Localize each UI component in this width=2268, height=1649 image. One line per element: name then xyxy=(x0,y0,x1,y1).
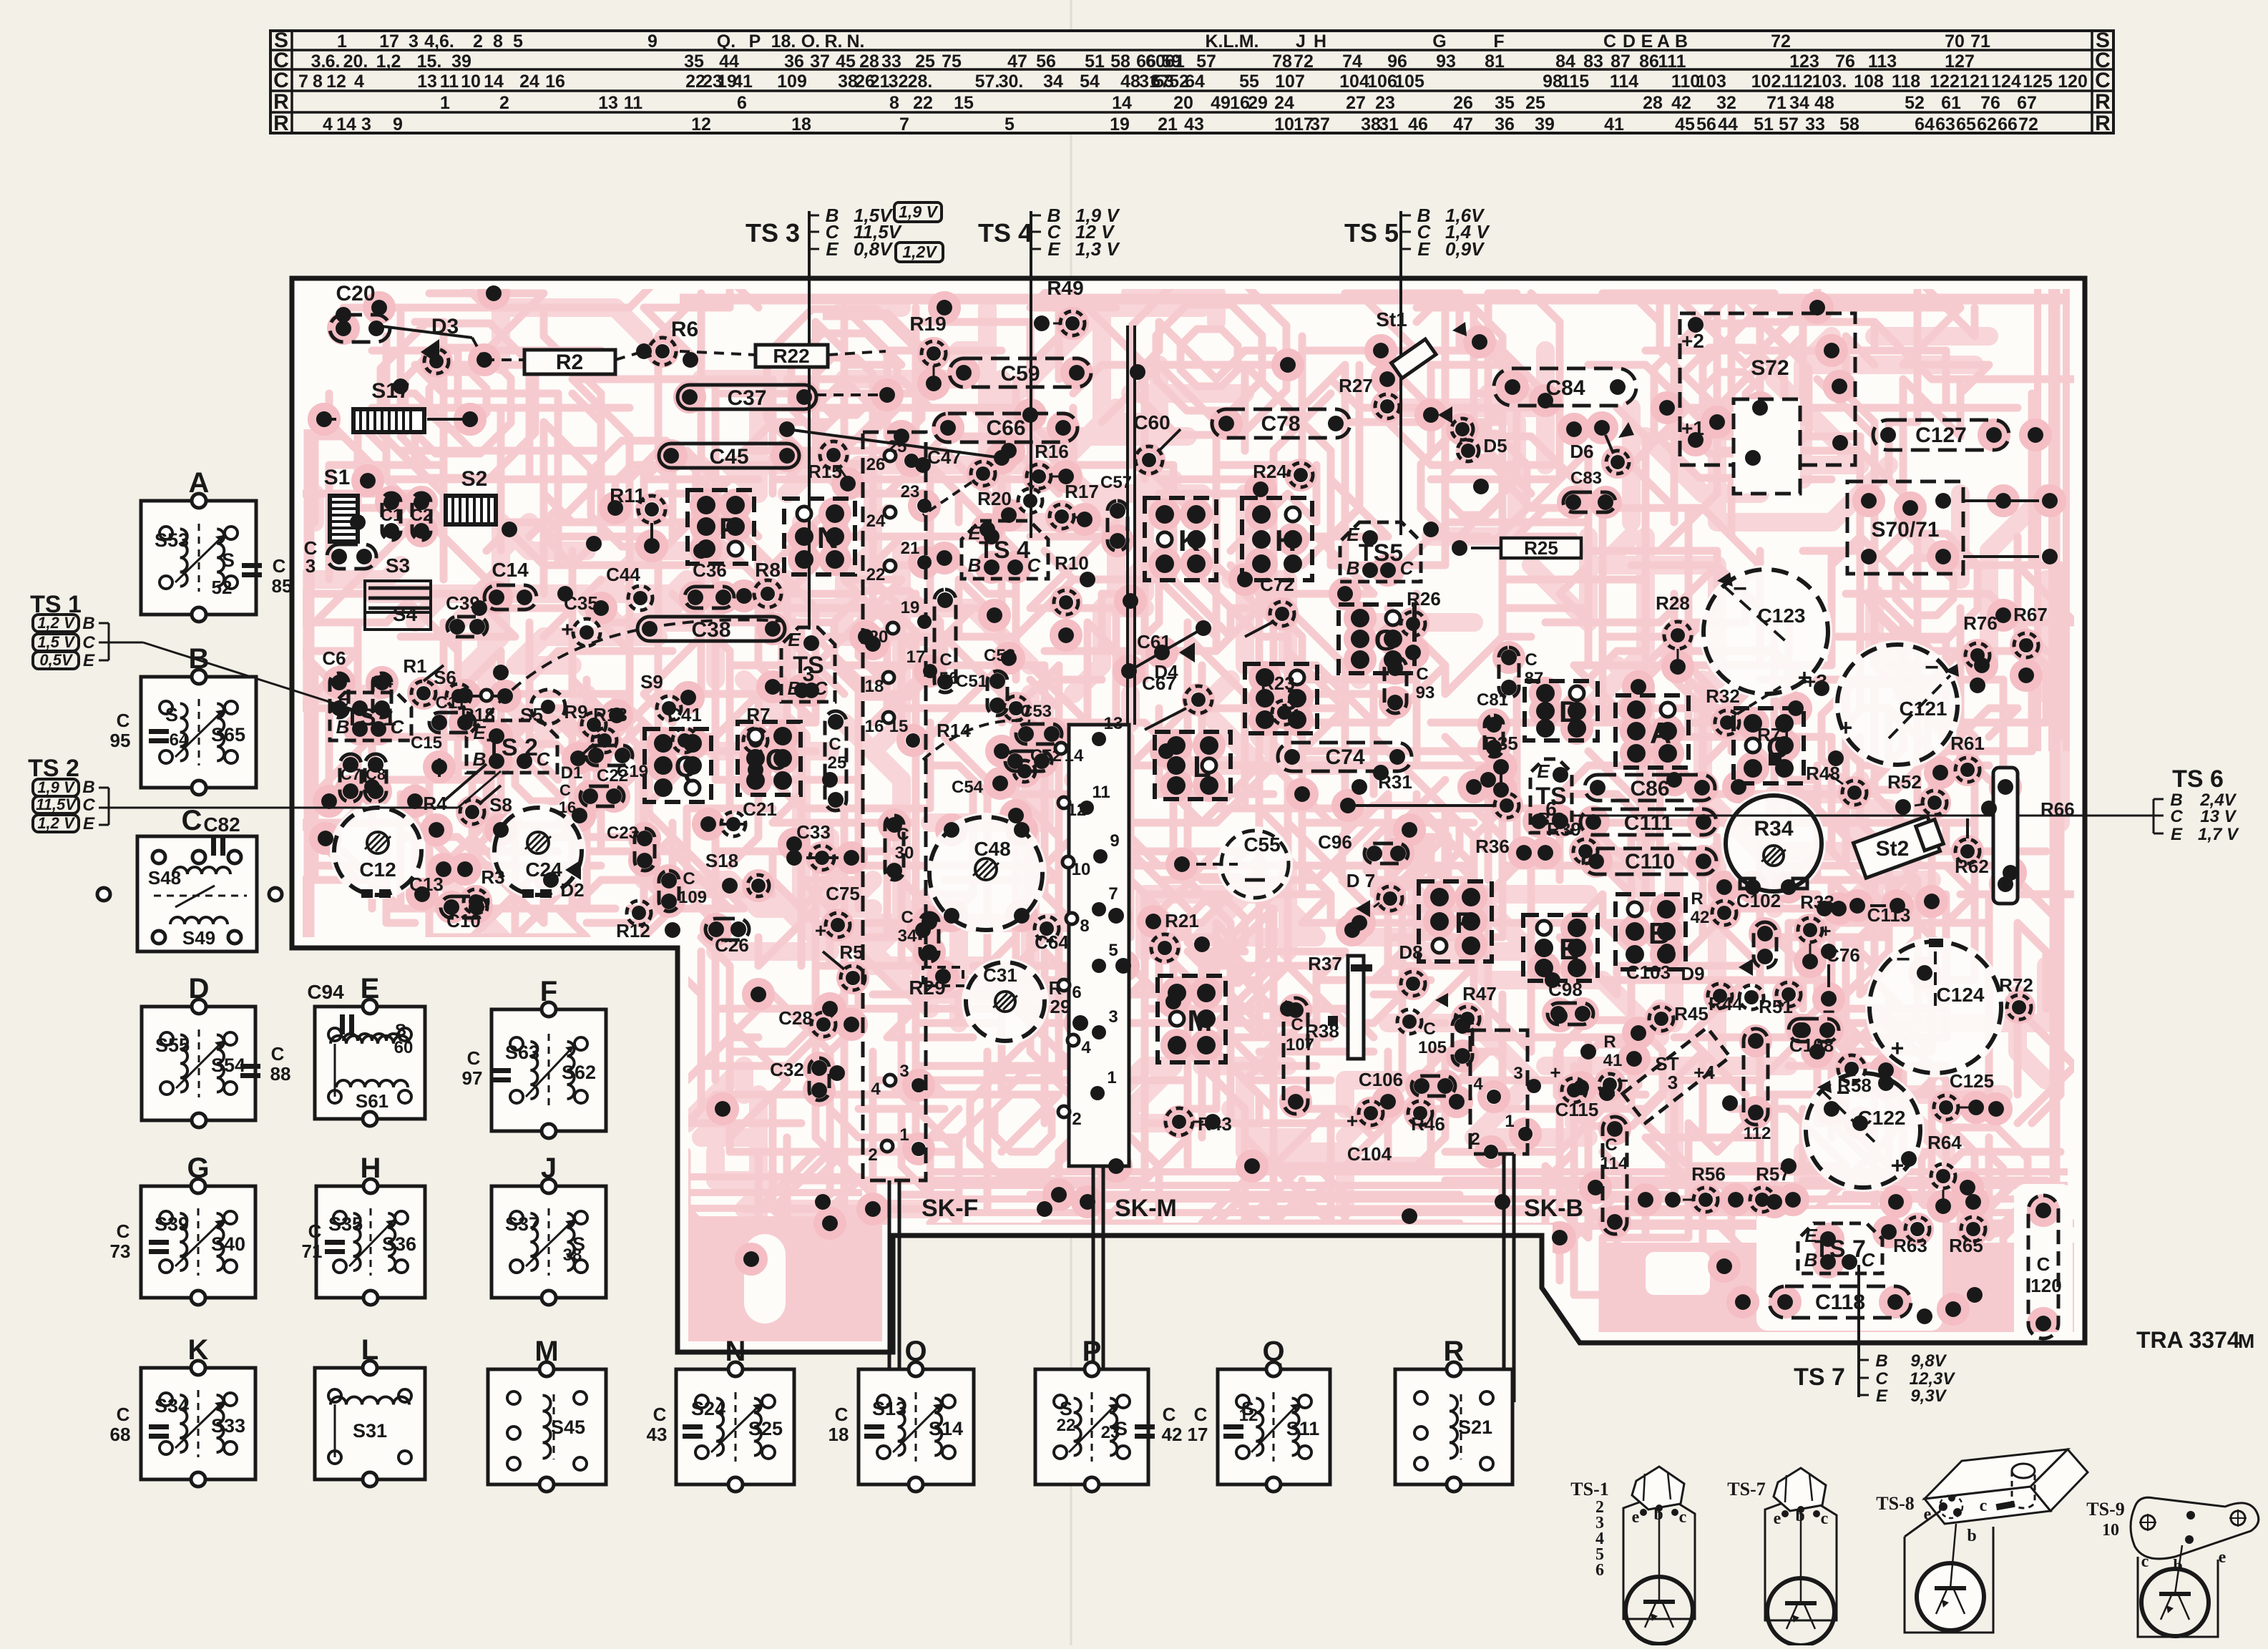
svg-text:SK-B: SK-B xyxy=(1524,1195,1583,1222)
capacitor C4 xyxy=(371,672,394,718)
transformer E xyxy=(307,973,425,1126)
svg-text:D 7: D 7 xyxy=(1346,870,1375,891)
resistor R67 xyxy=(2013,604,2048,683)
svg-text:45: 45 xyxy=(1675,114,1695,134)
svg-text:S40: S40 xyxy=(211,1233,245,1255)
capacitor C64 xyxy=(1035,916,1069,953)
resistor R35 xyxy=(1484,733,1518,798)
plug SK-B pads xyxy=(1470,1064,1541,1159)
svg-text:78: 78 xyxy=(1272,52,1292,72)
capacitor C108 xyxy=(1789,1019,1839,1056)
svg-text:C7: C7 xyxy=(341,765,361,783)
svg-text:3: 3 xyxy=(803,662,815,686)
svg-text:R6: R6 xyxy=(671,318,698,341)
svg-text:70: 70 xyxy=(1945,31,1965,52)
svg-text:127: 127 xyxy=(1945,52,1975,72)
svg-text:E: E xyxy=(473,722,486,743)
svg-text:C78: C78 xyxy=(1261,412,1300,436)
resistor R3 xyxy=(464,866,505,914)
capacitor C8 xyxy=(365,754,386,802)
svg-text:E: E xyxy=(1047,238,1060,260)
capacitor C111 xyxy=(1580,809,1716,835)
capacitor C56 xyxy=(934,589,958,693)
svg-text:+4: +4 xyxy=(1693,1062,1715,1083)
svg-text:R13: R13 xyxy=(593,704,627,725)
svg-text:0,9V: 0,9V xyxy=(1445,238,1485,260)
svg-text:St1: St1 xyxy=(1376,308,1407,331)
test point callouts xyxy=(28,202,2239,1406)
capacitor C35 xyxy=(561,592,600,646)
svg-text:S49: S49 xyxy=(182,927,215,949)
svg-text:SK-F: SK-F xyxy=(922,1195,978,1222)
svg-text:C: C xyxy=(271,1043,285,1065)
resistor R76 xyxy=(1963,612,1998,693)
svg-text:R52: R52 xyxy=(1887,771,1922,793)
svg-text:S24: S24 xyxy=(691,1398,725,1419)
svg-text:74: 74 xyxy=(1342,52,1362,72)
resistor R41 xyxy=(1599,1032,1642,1095)
svg-text:102.: 102. xyxy=(1751,72,1786,92)
svg-text:123: 123 xyxy=(1789,52,1819,72)
svg-text:R1: R1 xyxy=(403,655,426,677)
svg-text:105: 105 xyxy=(1418,1038,1447,1057)
svg-text:6: 6 xyxy=(1595,1561,1604,1580)
svg-text:41: 41 xyxy=(733,72,753,92)
capacitor C34 xyxy=(898,908,939,961)
svg-text:+3: +3 xyxy=(1804,670,1827,693)
plug SKM strip xyxy=(1069,725,1129,1166)
svg-text:36: 36 xyxy=(784,52,804,72)
svg-text:R76: R76 xyxy=(1963,612,1998,634)
svg-text:2: 2 xyxy=(1072,1110,1081,1129)
capacitor C54 xyxy=(952,760,1035,797)
svg-text:56: 56 xyxy=(1696,114,1716,134)
svg-text:11: 11 xyxy=(624,93,643,113)
svg-text:D5: D5 xyxy=(1483,435,1507,456)
transistor box E2 xyxy=(1523,915,1598,981)
capacitor C115 xyxy=(1550,1062,1628,1120)
plug St1 xyxy=(1376,308,1487,378)
svg-text:TS-1: TS-1 xyxy=(1570,1479,1608,1499)
svg-text:C48: C48 xyxy=(974,838,1010,860)
svg-text:TS 7: TS 7 xyxy=(1794,1364,1845,1391)
svg-text:5: 5 xyxy=(1108,941,1118,960)
svg-text:C: C xyxy=(1862,1249,1876,1271)
svg-text:9: 9 xyxy=(1110,831,1119,851)
diode D8 xyxy=(1397,941,1448,1034)
plug St2 xyxy=(1853,814,1945,878)
svg-text:1,9 V: 1,9 V xyxy=(899,202,938,221)
svg-text:C86: C86 xyxy=(1630,777,1669,801)
diode D3 xyxy=(421,315,459,373)
svg-text:12: 12 xyxy=(326,72,346,92)
svg-text:−: − xyxy=(1896,946,1910,973)
svg-text:S21: S21 xyxy=(1458,1416,1492,1438)
svg-text:TS-9: TS-9 xyxy=(2086,1499,2124,1520)
pinout TS-9/10 xyxy=(2086,1497,2259,1637)
svg-text:18: 18 xyxy=(865,677,884,696)
svg-text:2: 2 xyxy=(499,93,509,113)
svg-text:S25: S25 xyxy=(748,1418,783,1439)
capacitor C96 xyxy=(1318,831,1408,863)
svg-text:24: 24 xyxy=(866,512,886,531)
svg-text:C: C xyxy=(1400,557,1414,579)
svg-text:28: 28 xyxy=(859,52,879,72)
svg-text:C125: C125 xyxy=(1950,1070,1994,1092)
plug SK-M upper slot xyxy=(1128,326,1135,725)
svg-text:D2: D2 xyxy=(560,879,584,901)
svg-text:R37: R37 xyxy=(1308,953,1342,974)
svg-text:R2: R2 xyxy=(556,351,583,374)
svg-text:R56: R56 xyxy=(1691,1163,1726,1185)
svg-text:4: 4 xyxy=(323,114,333,134)
wire dashed curve xyxy=(487,620,781,717)
resistor R18 xyxy=(446,684,513,725)
capacitor C102 xyxy=(1736,890,1781,968)
svg-text:R: R xyxy=(1691,889,1703,909)
transistor TS7 xyxy=(1798,1223,1882,1273)
svg-text:23: 23 xyxy=(1101,1423,1120,1442)
svg-text:S37: S37 xyxy=(505,1213,539,1235)
svg-text:4: 4 xyxy=(354,72,364,92)
svg-text:C6: C6 xyxy=(322,647,346,669)
svg-text:c: c xyxy=(1679,1508,1687,1527)
resistor R16 xyxy=(1027,441,1074,489)
svg-text:R24: R24 xyxy=(1253,461,1287,482)
capacitor C114 xyxy=(1600,1117,1628,1234)
svg-text:16: 16 xyxy=(1230,93,1250,113)
svg-text:R49: R49 xyxy=(1047,277,1083,299)
diode D4 xyxy=(1154,642,1195,682)
svg-text:R: R xyxy=(2095,90,2111,114)
svg-text:3: 3 xyxy=(409,31,419,52)
svg-text:71: 71 xyxy=(1970,31,1990,52)
capacitor C41 xyxy=(668,704,702,753)
svg-text:16: 16 xyxy=(545,72,565,92)
svg-text:76: 76 xyxy=(1980,93,2000,113)
svg-text:71: 71 xyxy=(1766,93,1786,113)
svg-text:C37: C37 xyxy=(727,386,766,410)
svg-text:C82: C82 xyxy=(203,813,240,836)
parts list table xyxy=(270,29,2113,135)
svg-text:C: C xyxy=(1423,1019,1435,1039)
svg-text:K: K xyxy=(1178,524,1200,557)
svg-text:C83: C83 xyxy=(1570,469,1602,488)
svg-text:5: 5 xyxy=(1005,114,1015,134)
coil S2 xyxy=(446,467,517,537)
svg-text:114: 114 xyxy=(1600,1154,1628,1173)
svg-text:56: 56 xyxy=(1036,52,1056,72)
capacitor C93 xyxy=(1384,657,1434,713)
svg-text:C: C xyxy=(82,796,95,815)
svg-text:3: 3 xyxy=(1108,1007,1118,1027)
svg-text:D3: D3 xyxy=(431,315,459,338)
svg-text:34: 34 xyxy=(1043,72,1063,92)
capacitor C22 xyxy=(580,766,628,806)
svg-text:E: E xyxy=(1346,524,1359,545)
svg-text:22: 22 xyxy=(913,93,933,113)
capacitor C118 xyxy=(1735,1286,1911,1318)
svg-text:TRA 3374: TRA 3374 xyxy=(2136,1327,2240,1353)
svg-text:C: C xyxy=(82,633,95,652)
resistor R2 xyxy=(524,350,615,374)
svg-text:C53: C53 xyxy=(1020,702,1052,721)
capacitor C87 xyxy=(1499,647,1543,698)
svg-text:7: 7 xyxy=(298,72,308,92)
svg-text:R61: R61 xyxy=(1950,733,1985,754)
svg-text:1,2 V: 1,2 V xyxy=(37,814,76,832)
svg-text:23: 23 xyxy=(1375,93,1395,113)
resistor R63 xyxy=(1881,1217,1930,1256)
svg-text:E: E xyxy=(1559,932,1579,966)
svg-text:1,7 V: 1,7 V xyxy=(2198,825,2239,844)
capacitor C83 xyxy=(1563,469,1616,512)
capacitor C3 xyxy=(304,537,376,577)
svg-text:C75: C75 xyxy=(826,883,860,904)
svg-text:S62: S62 xyxy=(562,1062,596,1083)
svg-text:106: 106 xyxy=(1367,72,1397,92)
svg-text:C102: C102 xyxy=(1736,890,1781,911)
svg-text:24: 24 xyxy=(519,72,539,92)
capacitor C55 xyxy=(1174,831,1289,898)
svg-text:20.: 20. xyxy=(343,52,368,72)
svg-text:38: 38 xyxy=(1361,114,1381,134)
transformer G xyxy=(110,1153,255,1305)
svg-text:C: C xyxy=(2095,69,2111,92)
svg-text:27: 27 xyxy=(1346,93,1366,113)
svg-text:83: 83 xyxy=(1583,52,1603,72)
svg-text:K.L.M.: K.L.M. xyxy=(1206,31,1259,52)
svg-text:C31: C31 xyxy=(983,964,1017,986)
svg-text:1,2: 1,2 xyxy=(376,52,401,72)
svg-text:N: N xyxy=(817,521,839,554)
capacitor C6 xyxy=(322,647,348,718)
svg-text:13: 13 xyxy=(1104,714,1123,733)
coil S17 xyxy=(316,379,478,432)
resistor R31 xyxy=(1340,771,1519,818)
resistor R8 xyxy=(736,559,781,607)
svg-text:C12: C12 xyxy=(359,858,396,881)
transistor box K xyxy=(1145,498,1216,580)
svg-text:14: 14 xyxy=(1112,93,1132,113)
svg-text:10: 10 xyxy=(2102,1521,2119,1540)
svg-text:C28: C28 xyxy=(778,1007,813,1029)
pinout TS-8 xyxy=(1876,1449,2088,1633)
capacitor C39 xyxy=(446,592,487,637)
svg-text:C: C xyxy=(391,716,405,738)
resistor R25 xyxy=(1452,537,1581,559)
svg-text:103.: 103. xyxy=(1812,72,1847,92)
capacitor C113 xyxy=(1849,898,1910,926)
svg-text:C: C xyxy=(308,1220,322,1242)
pcb board outline xyxy=(292,278,2085,1352)
svg-text:R: R xyxy=(2095,112,2111,135)
svg-text:e: e xyxy=(1774,1509,1781,1528)
svg-text:R23: R23 xyxy=(1261,672,1295,694)
svg-text:R3: R3 xyxy=(481,866,504,888)
transistor box N xyxy=(784,499,855,574)
capacitor C72 xyxy=(1245,574,1294,637)
resistor R58 xyxy=(1837,1055,1894,1096)
svg-text:72: 72 xyxy=(2018,114,2038,134)
svg-text:F: F xyxy=(1455,906,1473,939)
resistor R27 xyxy=(1339,371,1399,419)
svg-text:81: 81 xyxy=(1485,52,1505,72)
transformer P2 xyxy=(1035,1336,1182,1492)
transistor box Q xyxy=(645,729,711,802)
capacitor C57 xyxy=(1100,473,1132,551)
capacitor C47 xyxy=(923,446,995,515)
svg-text:F: F xyxy=(1493,31,1504,52)
plug SK-B slot xyxy=(1504,1154,1583,1402)
svg-text:b: b xyxy=(1795,1507,1804,1525)
resistor R45 xyxy=(1631,1003,1709,1041)
svg-text:6.: 6. xyxy=(326,52,341,72)
svg-text:61: 61 xyxy=(1165,52,1185,72)
capacitor C109 xyxy=(659,869,707,911)
capacitor C59 xyxy=(949,358,1091,387)
svg-text:R27: R27 xyxy=(1339,375,1373,396)
capacitor C124 xyxy=(1869,939,2001,1078)
svg-text:S2: S2 xyxy=(461,467,488,491)
svg-text:S31: S31 xyxy=(353,1420,387,1442)
diode D6 xyxy=(1570,420,1634,474)
resistor R32 xyxy=(1706,685,1783,735)
svg-text:E: E xyxy=(1417,238,1430,260)
svg-text:E: E xyxy=(1804,1225,1817,1246)
svg-text:H: H xyxy=(1314,31,1326,52)
svg-text:R26: R26 xyxy=(1407,588,1441,610)
svg-text:C15: C15 xyxy=(411,733,442,753)
svg-text:D: D xyxy=(1623,31,1636,52)
svg-text:5: 5 xyxy=(513,31,523,52)
transformer J xyxy=(492,1153,606,1305)
transistor TS3 xyxy=(781,627,835,702)
svg-text:S63: S63 xyxy=(505,1042,539,1063)
svg-text:35: 35 xyxy=(1495,93,1515,113)
resistor R21 xyxy=(1145,910,1199,961)
svg-text:+: + xyxy=(1891,1035,1905,1061)
svg-text:C54: C54 xyxy=(952,778,984,797)
wire dashed mid xyxy=(816,387,895,403)
svg-text:33: 33 xyxy=(881,52,901,72)
capacitor C31 xyxy=(966,962,1070,1041)
diode D7 xyxy=(1346,870,1402,931)
svg-text:25: 25 xyxy=(828,753,847,773)
svg-text:C: C xyxy=(653,1404,667,1425)
svg-text:TS 6: TS 6 xyxy=(2172,765,2224,793)
svg-text:44: 44 xyxy=(719,52,739,72)
svg-text:C127: C127 xyxy=(1915,424,1967,447)
resistor R19 xyxy=(909,313,946,391)
capacitor C30 xyxy=(885,816,914,880)
svg-text:S18: S18 xyxy=(705,850,738,871)
svg-text:9: 9 xyxy=(393,114,403,134)
svg-text:1,5 V: 1,5 V xyxy=(37,633,76,651)
svg-text:C: C xyxy=(117,1220,130,1242)
svg-text:15.: 15. xyxy=(417,52,442,72)
svg-text:C: C xyxy=(683,869,695,889)
svg-text:43: 43 xyxy=(647,1424,668,1445)
resistor R56 xyxy=(1691,1163,1744,1212)
svg-text:36: 36 xyxy=(1495,114,1515,134)
svg-text:42: 42 xyxy=(1162,1424,1183,1445)
svg-text:B: B xyxy=(1346,557,1360,579)
svg-text:TS-7: TS-7 xyxy=(1727,1479,1765,1499)
svg-text:E: E xyxy=(83,651,95,670)
svg-text:G: G xyxy=(1432,31,1446,52)
svg-text:10: 10 xyxy=(461,72,481,92)
svg-text:17: 17 xyxy=(906,647,926,667)
svg-text:66: 66 xyxy=(1998,114,2018,134)
svg-text:C: C xyxy=(2037,1253,2051,1275)
svg-text:TS 3: TS 3 xyxy=(746,218,800,248)
svg-text:R10: R10 xyxy=(1055,552,1089,574)
svg-text:+: + xyxy=(561,618,574,642)
svg-text:R25: R25 xyxy=(1524,537,1558,559)
svg-text:E: E xyxy=(83,814,95,833)
pcb copper traces (pink) xyxy=(292,278,2085,1352)
coil S8 xyxy=(460,786,512,824)
capacitor C48 xyxy=(929,817,1042,930)
svg-text:63: 63 xyxy=(1935,114,1955,134)
svg-text:+: + xyxy=(815,919,826,941)
svg-text:60: 60 xyxy=(1145,52,1165,72)
svg-text:108: 108 xyxy=(1854,72,1884,92)
svg-text:60: 60 xyxy=(394,1038,414,1057)
capacitor C14 xyxy=(484,559,537,610)
svg-text:2: 2 xyxy=(1470,1130,1480,1149)
transformer A xyxy=(141,467,292,622)
svg-text:37: 37 xyxy=(810,52,830,72)
svg-text:S33: S33 xyxy=(211,1415,245,1437)
svg-text:B: B xyxy=(968,554,982,576)
resistor R15 xyxy=(808,441,856,491)
svg-text:37: 37 xyxy=(1310,114,1330,134)
transformer D xyxy=(142,973,290,1127)
capacitor C60 xyxy=(1133,411,1181,474)
svg-text:R: R xyxy=(273,112,289,135)
svg-text:85: 85 xyxy=(272,575,293,597)
resistor R52 xyxy=(1887,771,1947,815)
coil S4 xyxy=(365,603,431,630)
svg-text:1: 1 xyxy=(899,1125,909,1145)
svg-text:34: 34 xyxy=(1789,93,1809,113)
resistor R11 xyxy=(610,484,665,554)
svg-text:3: 3 xyxy=(1668,1072,1678,1093)
svg-text:11: 11 xyxy=(440,72,459,92)
capacitor C67 xyxy=(1142,672,1212,730)
capacitor C78 xyxy=(1212,409,1350,438)
svg-text:29: 29 xyxy=(1248,93,1268,113)
capacitor C52 xyxy=(1005,746,1062,771)
svg-text:E: E xyxy=(788,629,801,650)
resistor R49 xyxy=(1034,277,1085,336)
resistor R44 xyxy=(1709,985,1764,1014)
svg-text:C20: C20 xyxy=(336,282,375,305)
svg-text:C: C xyxy=(1525,650,1537,670)
capacitor C110 xyxy=(1583,848,1716,874)
svg-text:93: 93 xyxy=(1416,683,1435,703)
svg-text:S70/71: S70/71 xyxy=(1871,518,1939,542)
svg-text:St2: St2 xyxy=(1876,837,1910,861)
svg-text:6: 6 xyxy=(1545,798,1557,820)
capacitor C13 xyxy=(409,861,473,895)
svg-text:4,6.: 4,6. xyxy=(424,31,454,52)
svg-text:C33: C33 xyxy=(796,821,831,843)
svg-text:C106: C106 xyxy=(1359,1069,1403,1090)
coil S9 xyxy=(640,671,696,720)
